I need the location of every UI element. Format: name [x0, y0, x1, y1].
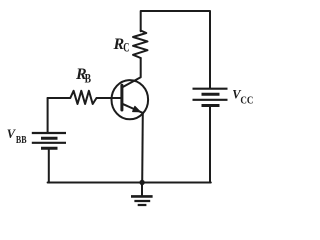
- svg-text:BB: BB: [16, 134, 27, 146]
- svg-text:C: C: [123, 40, 129, 55]
- svg-text:B: B: [85, 70, 92, 85]
- svg-text:CC: CC: [240, 95, 253, 106]
